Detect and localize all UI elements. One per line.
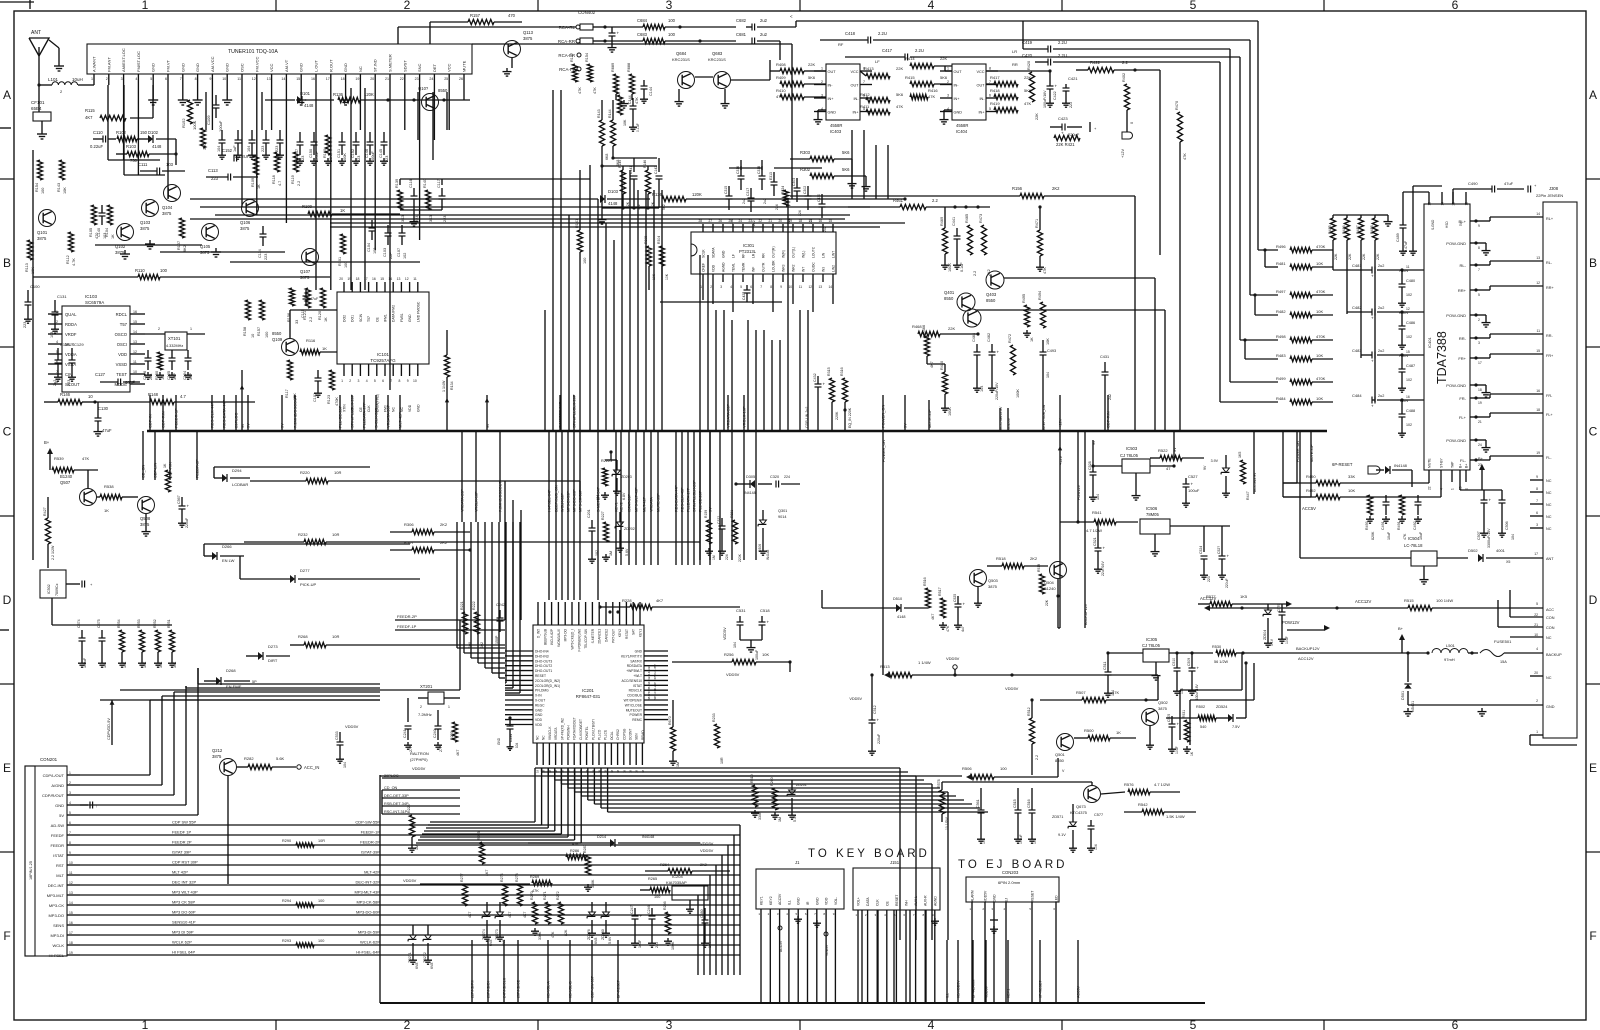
capacitor C109 xyxy=(206,95,223,132)
net row WCLK 62P xyxy=(80,939,740,947)
svg-text:PONITEL: PONITEL xyxy=(585,726,589,740)
resistor R516 xyxy=(923,577,935,620)
svg-text:4148: 4148 xyxy=(608,201,618,206)
svg-text:9: 9 xyxy=(407,379,409,383)
svg-text:MP3-DI-59P: MP3-DI-59P xyxy=(358,930,380,935)
diode D214 xyxy=(528,835,700,847)
svg-text:18: 18 xyxy=(341,77,345,81)
net row FEEDF 1P xyxy=(80,830,740,836)
connector J308 22Pin JENSEN xyxy=(1536,186,1577,738)
tuner pin 23 SNC xyxy=(415,63,423,85)
resistor R160 xyxy=(323,135,333,165)
svg-text:104: 104 xyxy=(1046,372,1050,378)
ground xyxy=(37,130,47,139)
svg-text:KIA7035AP: KIA7035AP xyxy=(666,880,687,885)
svg-text:INH: INH xyxy=(905,900,909,906)
svg-text:16: 16 xyxy=(69,921,73,925)
svg-text:RST: RST xyxy=(56,863,65,868)
svg-text:8550: 8550 xyxy=(272,331,282,336)
svg-text:223: 223 xyxy=(275,146,279,152)
IC IC503 CJ 78L05 xyxy=(1091,446,1175,500)
svg-text:5K6: 5K6 xyxy=(842,167,850,172)
svg-text:R515: R515 xyxy=(1404,598,1414,603)
svg-text:R143: R143 xyxy=(597,109,601,118)
svg-text:R119: R119 xyxy=(291,175,295,184)
capacitor C480 xyxy=(1398,270,1415,307)
ground xyxy=(193,85,203,105)
resistor R321 xyxy=(730,510,742,562)
wire xyxy=(374,85,376,250)
svg-text:1K: 1K xyxy=(324,317,328,322)
IC201 bottom pin DCONT xyxy=(629,729,633,773)
wire xyxy=(555,768,924,780)
svg-text:SAT: SAT xyxy=(632,629,636,635)
wire xyxy=(200,206,870,208)
resistor R233 xyxy=(712,713,724,764)
capacitor C247 xyxy=(630,905,643,948)
node VR0ATA-30P xyxy=(386,395,391,431)
svg-text:IN4148: IN4148 xyxy=(744,491,756,495)
tuner pin 16 L.OUT xyxy=(311,60,319,85)
J151 pin 6 INH xyxy=(903,900,908,1003)
svg-text:2: 2 xyxy=(404,0,411,12)
wire xyxy=(80,704,174,795)
svg-text:R516: R516 xyxy=(923,577,927,586)
connector CON203 xyxy=(966,870,1059,902)
circle VDD5V xyxy=(946,656,960,677)
node VRCLK-18P xyxy=(475,431,479,522)
svg-text:RR-: RR- xyxy=(1546,334,1553,338)
node BP-ALARM xyxy=(972,940,976,1003)
resistor R106 xyxy=(200,128,207,150)
tuner pin 9 AM.VCC xyxy=(209,56,215,85)
IC103 pin 10 TEST xyxy=(116,370,145,377)
capacitor C130 xyxy=(94,402,112,436)
svg-text:A: A xyxy=(1589,88,1597,102)
svg-text:1: 1 xyxy=(190,327,192,331)
wire xyxy=(909,910,911,1003)
IC301 pin 18 IN(L) xyxy=(798,219,805,258)
node FEEDR-1P xyxy=(174,395,179,431)
svg-text:11: 11 xyxy=(69,871,73,875)
svg-text:15K: 15K xyxy=(293,393,297,400)
J1 pin 5 GND xyxy=(796,897,801,1003)
svg-text:4: 4 xyxy=(928,1018,935,1030)
wire xyxy=(561,768,932,784)
CON201 pin 11 MLT xyxy=(56,871,80,878)
svg-text:C684: C684 xyxy=(637,18,648,23)
capacitor C462 xyxy=(987,333,1000,400)
node VRCLK-19P xyxy=(742,395,747,431)
svg-text:R226: R226 xyxy=(407,804,411,813)
svg-text:R497: R497 xyxy=(1276,289,1286,294)
svg-text:CDP RST 30P: CDP RST 30P xyxy=(172,860,198,865)
svg-text:VDD: VDD xyxy=(535,718,543,722)
resistor R145 xyxy=(618,160,630,208)
svg-text:IN+: IN+ xyxy=(852,111,859,115)
svg-text:FEEDF-1P: FEEDF-1P xyxy=(361,830,381,835)
capacitor C104 xyxy=(367,220,377,254)
resistor R409 xyxy=(776,75,826,87)
svg-text:SENS10 41P: SENS10 41P xyxy=(172,920,196,925)
svg-text:Q301: Q301 xyxy=(778,509,787,513)
J308 pin 3 NC xyxy=(1530,523,1552,531)
wire xyxy=(472,44,792,199)
svg-text:C103: C103 xyxy=(383,248,387,257)
capacitor C126 xyxy=(143,350,153,380)
svg-text:VDD: VDD xyxy=(712,264,716,272)
capacitor C492 xyxy=(1413,495,1423,540)
node FEEDR-2P xyxy=(196,431,200,480)
capacitor C240 xyxy=(433,710,443,752)
capacitor C441 xyxy=(952,217,964,272)
svg-text:C151: C151 xyxy=(337,149,341,158)
svg-text:IN+: IN+ xyxy=(954,97,961,101)
svg-text:MP3 WLT 43P: MP3 WLT 43P xyxy=(172,890,198,895)
svg-text:ZD271: ZD271 xyxy=(408,952,412,963)
IC301 pin 19 OUT(L) xyxy=(788,219,795,258)
capacitor C152 xyxy=(351,132,361,165)
label VDD5V xyxy=(412,766,426,771)
capacitor C114 xyxy=(258,226,268,260)
svg-text:7809Cx: 7809Cx xyxy=(55,583,59,596)
svg-text:18: 18 xyxy=(356,277,360,281)
svg-text:6PIN 2.0mm: 6PIN 2.0mm xyxy=(998,880,1021,885)
svg-text:GND: GND xyxy=(797,897,801,905)
net row DEC INT 32P xyxy=(80,880,740,886)
svg-text:FEEDF 1P: FEEDF 1P xyxy=(172,830,191,835)
diode D510 xyxy=(822,590,928,619)
capacitor C101 xyxy=(313,370,322,402)
svg-text:22: 22 xyxy=(1534,613,1538,617)
ground xyxy=(740,640,762,652)
svg-text:2u2: 2u2 xyxy=(742,198,746,204)
IC101 top pin 16 xyxy=(372,277,379,322)
svg-text:C114: C114 xyxy=(258,249,262,258)
svg-text:R109: R109 xyxy=(251,178,255,187)
CON201 pin 16 SENS xyxy=(53,921,80,928)
ground xyxy=(341,85,351,105)
resistor R105 xyxy=(89,205,99,239)
CON201 pin 17 MP3-DI xyxy=(50,931,80,938)
svg-text:MP3 DI 59P: MP3 DI 59P xyxy=(172,930,194,935)
svg-text:8: 8 xyxy=(770,285,772,289)
IC201 top pin WONG/AUX xyxy=(557,602,561,647)
node VDD5V xyxy=(1007,408,1011,431)
svg-text:10K: 10K xyxy=(1316,309,1323,314)
svg-text:FL-: FL- xyxy=(1460,458,1467,463)
svg-text:R157: R157 xyxy=(470,13,481,18)
svg-text:2: 2 xyxy=(349,379,351,383)
svg-text:D: D xyxy=(1589,593,1598,607)
svg-text:100K: 100K xyxy=(192,120,197,130)
svg-text:VDD5V: VDD5V xyxy=(700,848,714,853)
capacitor C484 xyxy=(1352,393,1424,409)
wire xyxy=(774,167,822,169)
capacitor C523 xyxy=(1217,526,1230,588)
svg-text:POWER: POWER xyxy=(630,713,643,717)
svg-text:FDATA/XD/DET: FDATA/XD/DET xyxy=(573,717,577,740)
svg-text:ACC12V: ACC12V xyxy=(1298,656,1314,661)
svg-text:C317: C317 xyxy=(746,188,750,196)
J151 pin 7 AUX-L xyxy=(913,896,918,1003)
svg-text:8: 8 xyxy=(1478,246,1480,250)
J308 pin 20 NC xyxy=(1530,671,1552,680)
svg-text:25: 25 xyxy=(444,77,448,81)
svg-text:C493: C493 xyxy=(1047,349,1056,353)
wire xyxy=(265,99,295,101)
svg-text:DEC INT 32P: DEC INT 32P xyxy=(172,880,196,885)
IC301 pin 23 LR xyxy=(748,219,755,258)
svg-text:VDDA: VDDA xyxy=(65,352,77,357)
capacitor C125 xyxy=(167,350,177,380)
capacitor C150 xyxy=(309,132,319,165)
CON203 pin 6 LED xyxy=(1053,895,1058,1003)
svg-text:R542: R542 xyxy=(1138,802,1148,807)
svg-text:AGND: AGND xyxy=(722,262,726,272)
capacitor C493 xyxy=(1040,340,1057,378)
capacitor C516 xyxy=(1027,788,1037,844)
svg-text:1: 1 xyxy=(1451,488,1455,490)
net row CDP RST 30P xyxy=(80,860,740,866)
capacitor C423 xyxy=(1050,116,1097,137)
tuner pin 6 FM.VT xyxy=(165,59,171,85)
transistor Q108 8550 xyxy=(418,86,448,111)
svg-text:GND: GND xyxy=(151,63,156,72)
svg-text:100: 100 xyxy=(265,332,269,338)
svg-text:220uF: 220uF xyxy=(185,517,189,528)
svg-text:R506: R506 xyxy=(962,766,972,771)
svg-text:C418: C418 xyxy=(845,31,856,36)
svg-text:C315: C315 xyxy=(724,186,728,194)
svg-text:0.47uF: 0.47uF xyxy=(1404,240,1408,252)
wire xyxy=(290,310,337,338)
svg-text:NC: NC xyxy=(400,407,404,412)
svg-text:F-POWER(UN0: F-POWER(UN0 xyxy=(577,629,581,652)
svg-text:DET: DET xyxy=(432,63,437,72)
label TO EJ BOARD xyxy=(958,859,1067,871)
resistor R470 xyxy=(1175,101,1187,431)
J1 pin 9 VOL- xyxy=(833,897,838,1003)
resistor R432 xyxy=(1122,73,1134,124)
IC101 top pin 11 xyxy=(413,277,420,322)
svg-text:IN3: IN3 xyxy=(822,267,826,272)
wire xyxy=(942,782,1092,785)
svg-text:21: 21 xyxy=(1534,623,1538,627)
resistor R522 xyxy=(1150,448,1207,471)
wire xyxy=(653,190,655,431)
ground xyxy=(990,920,998,933)
svg-text:6V8: 6V8 xyxy=(594,938,598,944)
svg-text:+: + xyxy=(1371,404,1374,409)
resistor R109 xyxy=(251,155,261,189)
capacitor C464 xyxy=(972,333,984,392)
ground xyxy=(54,62,64,71)
svg-text:220uF: 220uF xyxy=(1068,132,1080,137)
svg-text:6: 6 xyxy=(382,379,384,383)
svg-text:C144: C144 xyxy=(628,95,632,104)
svg-text:22K: 22K xyxy=(1334,253,1338,260)
wire xyxy=(350,88,352,290)
svg-text:FR+: FR+ xyxy=(1458,356,1466,361)
svg-text:R410: R410 xyxy=(776,88,786,93)
svg-text:GND: GND xyxy=(815,897,819,905)
wire xyxy=(731,320,733,431)
svg-text:Q501: Q501 xyxy=(1055,752,1066,757)
diode D502 xyxy=(1468,548,1554,564)
IC201 top pin 2DANCE1 xyxy=(598,602,602,644)
diode ZD276 xyxy=(587,902,598,944)
tuner pin 7 GND xyxy=(180,63,186,85)
svg-text:VCC: VCC xyxy=(447,63,452,72)
svg-text:C420: C420 xyxy=(1022,53,1033,58)
wire xyxy=(160,251,285,253)
svg-text:C241: C241 xyxy=(403,729,407,738)
J151 pin 5 RESET xyxy=(894,895,899,1003)
svg-text:R154: R154 xyxy=(585,53,589,62)
resistor R103 xyxy=(116,144,178,163)
svg-text:47K: 47K xyxy=(635,97,639,104)
IC101 bottom pin 4 xyxy=(366,364,371,412)
svg-text:26: 26 xyxy=(459,77,463,81)
svg-text:C567: C567 xyxy=(177,495,181,504)
wire xyxy=(190,218,845,220)
capacitor C129 xyxy=(67,342,84,386)
IC201 left pin DHO-OUT3 xyxy=(505,659,552,663)
svg-text:100: 100 xyxy=(160,268,168,273)
svg-text:470K: 470K xyxy=(335,397,339,406)
circle VDD5V xyxy=(824,932,829,956)
svg-text:ISTAT: ISTAT xyxy=(633,684,642,688)
wire xyxy=(261,92,263,130)
svg-text:R414: R414 xyxy=(905,56,915,61)
capacitor C141 xyxy=(629,158,641,210)
wire xyxy=(727,845,729,975)
capacitor C511 xyxy=(1103,653,1115,697)
wire xyxy=(787,199,789,431)
diode D266 xyxy=(204,544,410,563)
tuner pin 12 FM.VCC xyxy=(252,57,259,85)
label POW12V xyxy=(1077,484,1081,500)
label VDD5V xyxy=(700,848,714,853)
svg-text:2: 2 xyxy=(1478,318,1480,322)
svg-text:R513: R513 xyxy=(880,664,890,669)
svg-text:TEL/CDP-SW: TEL/CDP-SW xyxy=(584,629,588,649)
svg-text:3875: 3875 xyxy=(988,584,998,589)
capacitor C140 xyxy=(97,205,107,239)
IC201 right pin KEY1/FRT/TX xyxy=(621,654,668,658)
node CDP-RIN xyxy=(1106,395,1111,431)
capacitor C316 xyxy=(736,166,746,204)
svg-text:RDSDATA: RDSDATA xyxy=(627,664,643,668)
svg-text:OUDC: OUDC xyxy=(812,262,816,272)
svg-text:2.2: 2.2 xyxy=(1122,60,1128,65)
diode ZD272 xyxy=(423,925,434,969)
IC IC103 SC6579A xyxy=(62,294,130,392)
resistor R512 xyxy=(1027,698,1039,775)
wire xyxy=(505,522,520,693)
wire xyxy=(130,85,153,118)
resistor R417 xyxy=(986,75,1031,87)
svg-text:+: + xyxy=(767,620,770,625)
svg-text:0.22uF: 0.22uF xyxy=(90,144,103,149)
svg-text:9: 9 xyxy=(209,77,211,81)
svg-text:47K: 47K xyxy=(1183,153,1187,160)
svg-text:MP3-DO: MP3-DO xyxy=(48,913,64,918)
IC201 bottom pin CHRS2 xyxy=(616,729,620,773)
node CDPVDD-9V xyxy=(107,700,114,745)
svg-text:LED: LED xyxy=(1055,895,1059,902)
svg-text:R270: R270 xyxy=(530,891,534,900)
resistor R123 xyxy=(327,370,339,406)
tuner pin 14 AM.VT xyxy=(281,59,289,85)
svg-text:FM0: FM0 xyxy=(384,405,388,412)
wire xyxy=(715,865,717,975)
wire xyxy=(649,266,662,290)
svg-text:6P-RESET: 6P-RESET xyxy=(1332,462,1353,467)
capacitor C128 xyxy=(53,342,70,386)
node 7.2MHZ/OSCOUT xyxy=(499,431,503,522)
node MUTE-35P xyxy=(657,431,661,565)
wire xyxy=(709,875,711,975)
IC201 top pin WCLK-62P xyxy=(550,602,554,645)
svg-text:L501: L501 xyxy=(1446,643,1456,648)
node 25P/KB/CE xyxy=(517,940,521,1003)
tuner pin 26 MUTE xyxy=(459,60,467,85)
svg-text:8K2: 8K2 xyxy=(183,245,187,252)
svg-text:104: 104 xyxy=(515,742,519,748)
wire xyxy=(863,130,865,199)
svg-text:C484: C484 xyxy=(1352,393,1362,398)
wire xyxy=(600,156,657,167)
TDA7388 pin 7 RL- xyxy=(1460,256,1553,272)
svg-text:VDD5V: VDD5V xyxy=(345,724,359,729)
svg-text:SDATA: SDATA xyxy=(712,247,716,258)
node RDS-DATA-44P xyxy=(222,395,227,431)
wire xyxy=(594,768,972,804)
node MP3-WLT-43P xyxy=(635,431,639,565)
svg-text:IN(L): IN(L) xyxy=(802,251,806,258)
svg-text:4: 4 xyxy=(1536,647,1538,651)
svg-text:INT: INT xyxy=(802,267,806,272)
capacitor C113 xyxy=(206,168,258,181)
svg-text:39P: 39P xyxy=(173,373,177,380)
svg-text:C110: C110 xyxy=(93,130,103,135)
svg-text:220uF: 220uF xyxy=(877,733,881,744)
node KEY1 xyxy=(615,431,619,565)
svg-text:C421: C421 xyxy=(1068,76,1078,81)
svg-text:103: 103 xyxy=(50,332,54,338)
IC201 bottom pin NC xyxy=(542,735,546,773)
svg-text:3: 3 xyxy=(666,0,673,12)
TDA7388 pin 18 POW-GND xyxy=(1446,383,1490,397)
svg-text:+12V: +12V xyxy=(1121,149,1125,158)
svg-text:10: 10 xyxy=(1534,633,1538,637)
J151 pin 8 AUX-R xyxy=(923,895,928,1003)
resistor R522v xyxy=(163,463,171,492)
IC103 pin 6 VSSA xyxy=(48,360,76,367)
resistor R158 xyxy=(243,300,255,338)
capacitor C561 xyxy=(976,788,986,844)
svg-text:18: 18 xyxy=(536,769,540,773)
svg-text:12: 12 xyxy=(252,77,256,81)
node 9V xyxy=(246,395,251,431)
svg-text:DEC-INT-32P: DEC-INT-32P xyxy=(356,880,381,885)
label VDD5V xyxy=(723,627,727,640)
svg-text:150P: 150P xyxy=(495,635,499,644)
svg-text:R420: R420 xyxy=(1027,61,1031,70)
wire xyxy=(1240,339,1278,341)
